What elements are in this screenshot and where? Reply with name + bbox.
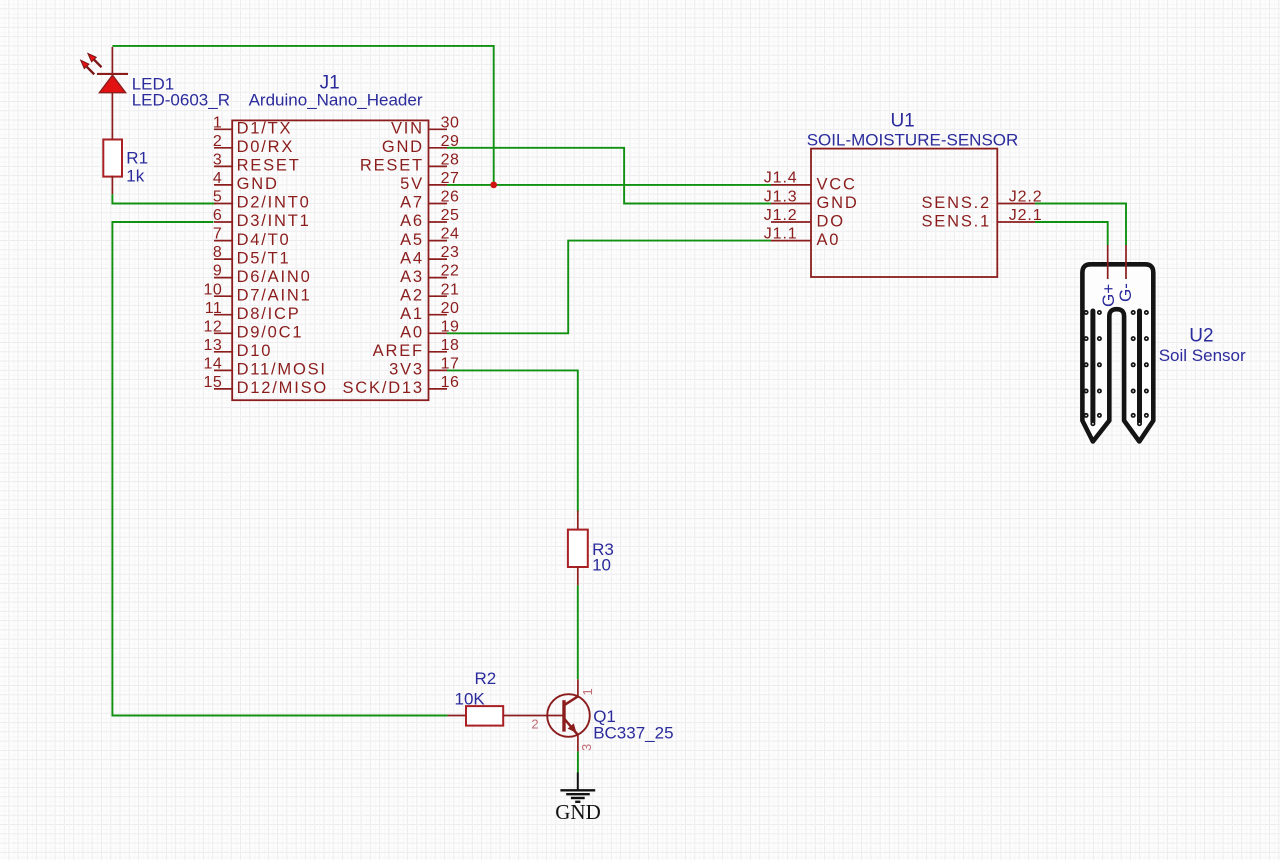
svg-text:D11/MOSI: D11/MOSI: [237, 361, 327, 379]
svg-text:SENS.1: SENS.1: [922, 212, 992, 230]
U1 pin J1.3 (GND): [764, 188, 859, 212]
svg-text:D10: D10: [237, 342, 273, 360]
J1 pin 10 (D7/AIN1): [204, 281, 312, 304]
resistor R1: [103, 140, 122, 195]
svg-text:7: 7: [213, 226, 222, 243]
svg-text:A6: A6: [400, 212, 424, 230]
IC U1 SOIL-MOISTURE-SENSOR body: [811, 149, 997, 277]
U1 pin J1.4 (VCC): [764, 170, 857, 194]
J1 pin 3 (RESET): [213, 152, 301, 175]
J1 pin 17 (3V3): [389, 356, 459, 379]
svg-text:D3/INT1: D3/INT1: [237, 212, 311, 230]
J1 pin 1 (D1/TX): [213, 114, 292, 137]
svg-text:G-: G-: [1116, 283, 1135, 302]
U2 left electrode bar: [1090, 311, 1095, 422]
svg-text:LED-0603_R: LED-0603_R: [132, 91, 230, 110]
J1 pin 23 (A4): [400, 244, 459, 267]
svg-text:J1.3: J1.3: [764, 188, 798, 205]
svg-text:GND: GND: [555, 800, 601, 824]
svg-text:A1: A1: [400, 305, 424, 323]
svg-text:D1/TX: D1/TX: [237, 120, 293, 138]
U2 right electrode bar: [1137, 311, 1142, 422]
svg-text:28: 28: [441, 152, 460, 169]
svg-text:20: 20: [441, 300, 460, 317]
svg-text:1: 1: [580, 688, 595, 695]
svg-text:D12/MISO: D12/MISO: [237, 379, 328, 397]
J1 pin 15 (D12/MISO): [204, 374, 329, 397]
svg-text:GND: GND: [237, 175, 279, 193]
svg-text:11: 11: [205, 300, 223, 317]
wire Q1 emitter to ground: [577, 751, 579, 772]
J1 pin 29 (GND): [382, 133, 460, 156]
wire D3/INT1: J1 pin6 long run to R2: [112, 222, 447, 716]
svg-text:24: 24: [441, 226, 460, 243]
svg-text:27: 27: [441, 170, 460, 187]
IC J1 Arduino_Nano_Header body: [232, 120, 428, 400]
sensor probe U2 body outline: [1082, 264, 1153, 441]
svg-text:10: 10: [592, 556, 611, 575]
J1 pin 6 (D3/INT1): [213, 207, 311, 230]
J1 pin 24 (A5): [400, 226, 459, 249]
svg-text:J2.2: J2.2: [1009, 188, 1043, 205]
wire 5V net: top horizontal from LED anode to vertical drop at x494: [112, 46, 493, 185]
svg-text:D6/AIN0: D6/AIN0: [237, 268, 312, 286]
svg-text:VIN: VIN: [391, 120, 424, 138]
transistor Q1 BC337_25: [547, 679, 590, 751]
node junction dot on 5V net: [490, 182, 497, 189]
svg-text:A5: A5: [400, 231, 424, 249]
U1 pin J2.2 (SENS.2): [922, 188, 1043, 212]
wire D2/INT0: J1 pin5 to R1 bottom: [112, 194, 215, 203]
wire SENS.1 to U2 G+: [1035, 222, 1108, 245]
J1 pin 12 (D9/0C1): [204, 318, 304, 341]
wire GND net: J1 pin29 to U1 GND: [447, 148, 771, 204]
svg-text:10: 10: [204, 281, 223, 298]
svg-text:3: 3: [213, 152, 222, 169]
svg-text:14: 14: [204, 356, 223, 373]
J1 pin 19 (A0): [400, 318, 459, 341]
J1 pin 28 (RESET): [360, 152, 460, 175]
svg-text:A2: A2: [400, 286, 424, 304]
J1 pin 30 (VIN): [391, 114, 459, 137]
svg-text:4: 4: [213, 170, 222, 187]
svg-text:5V: 5V: [400, 175, 424, 193]
wire 5V horizontal: J1 pin27 to U1 VCC: [447, 184, 771, 186]
svg-text:5: 5: [213, 189, 222, 206]
U1 pin J2.1 (SENS.1): [922, 207, 1043, 231]
J1 pin 9 (D6/AIN0): [213, 263, 312, 286]
svg-text:2: 2: [531, 717, 538, 732]
U2 electrode pads: [1084, 310, 1149, 426]
svg-text:R2: R2: [475, 669, 497, 688]
svg-text:13: 13: [204, 337, 223, 354]
J1 pin 14 (D11/MOSI): [204, 356, 327, 379]
svg-text:D4/T0: D4/T0: [237, 231, 291, 249]
svg-text:3: 3: [579, 744, 594, 751]
ground GND: [555, 773, 601, 825]
svg-text:GND: GND: [817, 194, 859, 212]
svg-text:A3: A3: [400, 268, 424, 286]
svg-text:RESET: RESET: [360, 157, 424, 175]
svg-text:J1.1: J1.1: [764, 225, 798, 242]
svg-text:SOIL-MOISTURE-SENSOR: SOIL-MOISTURE-SENSOR: [807, 130, 1019, 149]
svg-text:D9/0C1: D9/0C1: [237, 324, 304, 342]
LED LED1: [81, 47, 128, 139]
svg-text:15: 15: [204, 374, 223, 391]
svg-text:J1.4: J1.4: [764, 170, 798, 187]
svg-text:AREF: AREF: [373, 342, 424, 360]
svg-text:2: 2: [213, 133, 222, 150]
svg-text:21: 21: [441, 281, 460, 298]
svg-text:R1: R1: [126, 149, 148, 168]
J1 pin 8 (D5/T1): [213, 244, 291, 267]
U2 pin G- stub: [1125, 245, 1127, 279]
svg-text:D0/RX: D0/RX: [237, 138, 295, 156]
resistor R3: [568, 511, 588, 586]
svg-text:Arduino_Nano_Header: Arduino_Nano_Header: [249, 91, 423, 110]
svg-text:10K: 10K: [455, 689, 486, 708]
U1 pin J1.1 (A0): [764, 225, 841, 249]
J1 pin 13 (D10): [204, 337, 273, 360]
svg-text:16: 16: [441, 374, 460, 391]
U2 pin G+ stub: [1107, 245, 1109, 279]
resistor R2: [448, 706, 563, 726]
svg-text:D2/INT0: D2/INT0: [237, 194, 311, 212]
svg-text:9: 9: [213, 263, 222, 280]
wire SENS.2 to U2 G-: [1035, 204, 1126, 246]
svg-text:DO: DO: [817, 212, 845, 230]
svg-text:D7/AIN1: D7/AIN1: [237, 286, 312, 304]
svg-text:12: 12: [204, 318, 223, 335]
wire A0 net: J1 pin19 to U1 A0: [447, 241, 771, 334]
svg-text:J1.2: J1.2: [764, 207, 798, 224]
wire R3 bottom to Q1 collector: [577, 585, 579, 679]
svg-text:VCC: VCC: [817, 175, 857, 193]
svg-text:1: 1: [213, 114, 222, 131]
svg-text:8: 8: [213, 244, 222, 261]
J1 pin 18 (AREF): [373, 337, 460, 360]
svg-text:A0: A0: [400, 324, 424, 342]
svg-text:6: 6: [213, 207, 222, 224]
J1 pin 20 (A1): [400, 300, 459, 323]
J1 pin 5 (D2/INT0): [213, 189, 311, 212]
svg-text:17: 17: [441, 356, 460, 373]
J1 pin 7 (D4/T0): [213, 226, 291, 249]
svg-text:25: 25: [441, 207, 460, 224]
svg-text:SCK/D13: SCK/D13: [343, 379, 424, 397]
wire 3V3 net: J1 pin17 to R3 top: [447, 370, 578, 511]
J1 pin 27 (5V): [400, 170, 459, 193]
J1 pin 11 (D8/ICP): [205, 300, 301, 323]
svg-text:26: 26: [441, 189, 460, 206]
J1 pin 25 (A6): [400, 207, 459, 230]
svg-text:A4: A4: [400, 249, 424, 267]
svg-text:30: 30: [441, 114, 460, 131]
U1 pin J1.2 (DO): [764, 207, 845, 231]
svg-text:GND: GND: [382, 138, 424, 156]
svg-text:1k: 1k: [126, 166, 144, 185]
svg-text:SENS.2: SENS.2: [922, 194, 992, 212]
svg-text:BC337_25: BC337_25: [593, 724, 673, 743]
svg-text:29: 29: [441, 133, 460, 150]
svg-text:19: 19: [441, 318, 460, 335]
svg-text:U1: U1: [890, 110, 914, 131]
svg-text:A0: A0: [817, 231, 841, 249]
svg-text:22: 22: [441, 263, 460, 280]
svg-text:3V3: 3V3: [389, 361, 424, 379]
svg-text:A7: A7: [400, 194, 424, 212]
J1 pin 2 (D0/RX): [213, 133, 294, 156]
J1 pin 21 (A2): [400, 281, 459, 304]
J1 pin 16 (SCK/D13): [343, 374, 460, 397]
svg-text:18: 18: [441, 337, 460, 354]
svg-text:U2: U2: [1189, 326, 1213, 347]
svg-text:D5/T1: D5/T1: [237, 249, 291, 267]
svg-text:J2.1: J2.1: [1009, 207, 1043, 224]
J1 pin 26 (A7): [400, 189, 459, 212]
J1 pin 22 (A3): [400, 263, 459, 286]
svg-text:RESET: RESET: [237, 157, 301, 175]
svg-text:23: 23: [441, 244, 460, 261]
svg-text:Soil Sensor: Soil Sensor: [1159, 346, 1246, 365]
J1 pin 4 (GND): [213, 170, 279, 193]
svg-text:D8/ICP: D8/ICP: [237, 305, 301, 323]
